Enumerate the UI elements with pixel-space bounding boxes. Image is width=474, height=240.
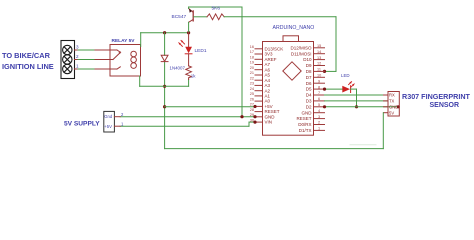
- svg-text:ARDUINO_NANO: ARDUINO_NANO: [273, 25, 315, 31]
- svg-text:D11/MOSI: D11/MOSI: [291, 51, 312, 56]
- svg-text:8: 8: [318, 85, 320, 89]
- svg-text:6: 6: [318, 97, 320, 101]
- wire connector to relay row 2: [78, 59, 95, 61]
- IC U1 ARDUINO_NANO: [263, 36, 314, 135]
- svg-text:1k: 1k: [191, 74, 196, 79]
- wire LED to resistor: [188, 54, 190, 66]
- wire D2 to R307 GND: [325, 106, 399, 108]
- wire +5V row from gnd-branch to nano +5V: [165, 106, 255, 108]
- svg-text:D2: D2: [306, 104, 312, 109]
- wire emitter top: [189, 7, 242, 117]
- svg-text:BC547: BC547: [172, 14, 187, 20]
- junction nano +5V pin: [253, 105, 256, 108]
- svg-text:7: 7: [318, 91, 320, 95]
- transistor Q1 BC547: [189, 8, 194, 22]
- svg-text:24: 24: [250, 87, 254, 91]
- wire base to resistor: [194, 16, 207, 18]
- faint trace: [350, 144, 376, 146]
- nano left pin names: [265, 46, 284, 124]
- svg-text:27: 27: [250, 103, 254, 107]
- wire R307 5V down to +5V bus: [165, 113, 384, 149]
- junction D2 pin: [323, 105, 326, 108]
- svg-text:17: 17: [250, 50, 254, 54]
- svg-text:IGNITION LINE: IGNITION LINE: [2, 62, 54, 71]
- connector X1 pin stubs: [75, 50, 79, 69]
- svg-text:D8: D8: [306, 69, 312, 74]
- svg-text:1: 1: [318, 127, 320, 131]
- svg-text:14: 14: [317, 50, 321, 54]
- svg-text:13: 13: [317, 56, 321, 60]
- svg-text:15: 15: [317, 44, 321, 48]
- svg-text:3: 3: [76, 45, 79, 50]
- svg-text:RESET: RESET: [296, 116, 311, 121]
- svg-text:LED: LED: [341, 73, 350, 78]
- svg-text:VIN: VIN: [265, 120, 273, 125]
- resistor R2 1k vertical: [186, 66, 192, 78]
- svg-text:D1/TX: D1/TX: [299, 128, 312, 133]
- connector X1 pin numbers 3 2 1: [76, 45, 79, 69]
- svg-text:23: 23: [250, 82, 254, 86]
- svg-text:RX: RX: [389, 93, 395, 98]
- junction D5 pin: [323, 88, 326, 91]
- svg-text:25: 25: [250, 92, 254, 96]
- svg-text:D7: D7: [306, 75, 312, 80]
- wire relay coil bottom: [140, 76, 189, 86]
- connector R307: [384, 92, 400, 117]
- svg-text:12: 12: [317, 62, 321, 66]
- svg-text:D6: D6: [306, 81, 312, 86]
- svg-text:D3: D3: [306, 99, 312, 104]
- junction diode-bottom / coil-bottom: [163, 85, 166, 88]
- svg-text:D0/RX: D0/RX: [298, 122, 311, 127]
- svg-text:3V3: 3V3: [265, 52, 274, 57]
- svg-text:1: 1: [76, 64, 79, 69]
- svg-text:SENSOR: SENSOR: [430, 102, 460, 109]
- LED D3 indicator: [342, 82, 354, 93]
- wire supply GND line: [120, 116, 255, 118]
- svg-text:A3: A3: [265, 83, 271, 88]
- wire collector down: [188, 22, 190, 32]
- svg-text:R307 FINGERPRINT: R307 FINGERPRINT: [402, 92, 471, 101]
- wire connector to relay row 3: [78, 50, 110, 69]
- junction emitter drop on GND: [240, 115, 243, 118]
- svg-text:4: 4: [318, 109, 320, 113]
- wire D3 to R307 TX: [325, 100, 389, 102]
- junction LED2 on D2 row: [355, 105, 358, 108]
- resistor R1 5K6: [207, 14, 224, 20]
- svg-text:D5: D5: [306, 87, 312, 92]
- svg-text:3: 3: [318, 115, 320, 119]
- junction coil-top / collector: [187, 31, 190, 34]
- svg-text:28: 28: [250, 108, 254, 112]
- svg-text:+5V: +5V: [104, 124, 112, 129]
- svg-text:LED1: LED1: [195, 48, 207, 54]
- wire LED2 cathode down to D2 row: [351, 89, 357, 107]
- wire diode branch vertical: [164, 33, 166, 149]
- wire supply +5V to VIN: [120, 122, 255, 126]
- connector X1 ignition screw terminal: [61, 41, 75, 79]
- svg-text:21: 21: [250, 71, 254, 75]
- svg-text:26: 26: [250, 97, 254, 101]
- relay K1: [110, 45, 141, 77]
- svg-text:Gnd: Gnd: [104, 114, 113, 119]
- label TO BIKE/CAR IGNITION LINE: [2, 51, 54, 71]
- svg-text:D10: D10: [303, 57, 312, 62]
- svg-text:11: 11: [317, 68, 321, 72]
- junction nano VIN pin: [253, 121, 256, 124]
- junction coil-top / diode: [163, 31, 166, 34]
- nano right pin stubs: [314, 48, 325, 131]
- junction at R307 GND: [397, 105, 400, 108]
- svg-text:D12/MISO: D12/MISO: [290, 45, 312, 50]
- svg-text:19: 19: [250, 61, 254, 65]
- svg-text:GND: GND: [389, 104, 398, 109]
- wire D4 to R307 RX: [325, 94, 389, 96]
- svg-text:TO BIKE/CAR: TO BIKE/CAR: [2, 51, 51, 60]
- svg-text:5V SUPPLY: 5V SUPPLY: [64, 120, 100, 127]
- svg-text:A0: A0: [265, 99, 271, 104]
- svg-text:D4: D4: [306, 93, 312, 98]
- junction D8 pin: [323, 70, 326, 73]
- wire relay coil top to node: [141, 33, 189, 47]
- svg-text:TX: TX: [389, 99, 395, 104]
- svg-text:GND: GND: [302, 110, 313, 115]
- LED D2 LED1: [179, 40, 192, 53]
- diode D1 1N4007: [161, 55, 168, 61]
- svg-text:22: 22: [250, 76, 254, 80]
- svg-text:16: 16: [250, 45, 254, 49]
- junction nano GND pin: [253, 115, 256, 118]
- svg-text:5V: 5V: [389, 110, 394, 115]
- wire connector to relay row 1: [78, 68, 95, 70]
- wire D5 to LED2: [325, 88, 343, 90]
- svg-text:9: 9: [318, 79, 320, 83]
- svg-text:1N4007: 1N4007: [170, 66, 186, 71]
- nano right pin names: [290, 45, 312, 133]
- nano left pin numbers 16-30: [250, 45, 254, 122]
- junction gnd-branch to nano 5V row: [163, 105, 166, 108]
- svg-text:20: 20: [250, 66, 254, 70]
- svg-text:10: 10: [317, 74, 321, 78]
- wire base net to D8: [224, 17, 336, 72]
- supply pin stubs: [114, 117, 120, 127]
- svg-text:A6: A6: [265, 67, 271, 72]
- svg-text:GND: GND: [265, 114, 276, 119]
- nano left pin stubs: [255, 49, 263, 122]
- svg-text:2: 2: [76, 54, 79, 59]
- svg-text:5K6: 5K6: [212, 6, 221, 12]
- connector J2 5V supply: [104, 111, 115, 132]
- svg-text:D9: D9: [306, 63, 312, 68]
- svg-text:5: 5: [318, 103, 320, 107]
- svg-text:18: 18: [250, 56, 254, 60]
- svg-text:2: 2: [318, 121, 320, 125]
- nano right pin numbers 15-1: [317, 44, 321, 131]
- svg-text:RELAY 5V: RELAY 5V: [112, 38, 136, 44]
